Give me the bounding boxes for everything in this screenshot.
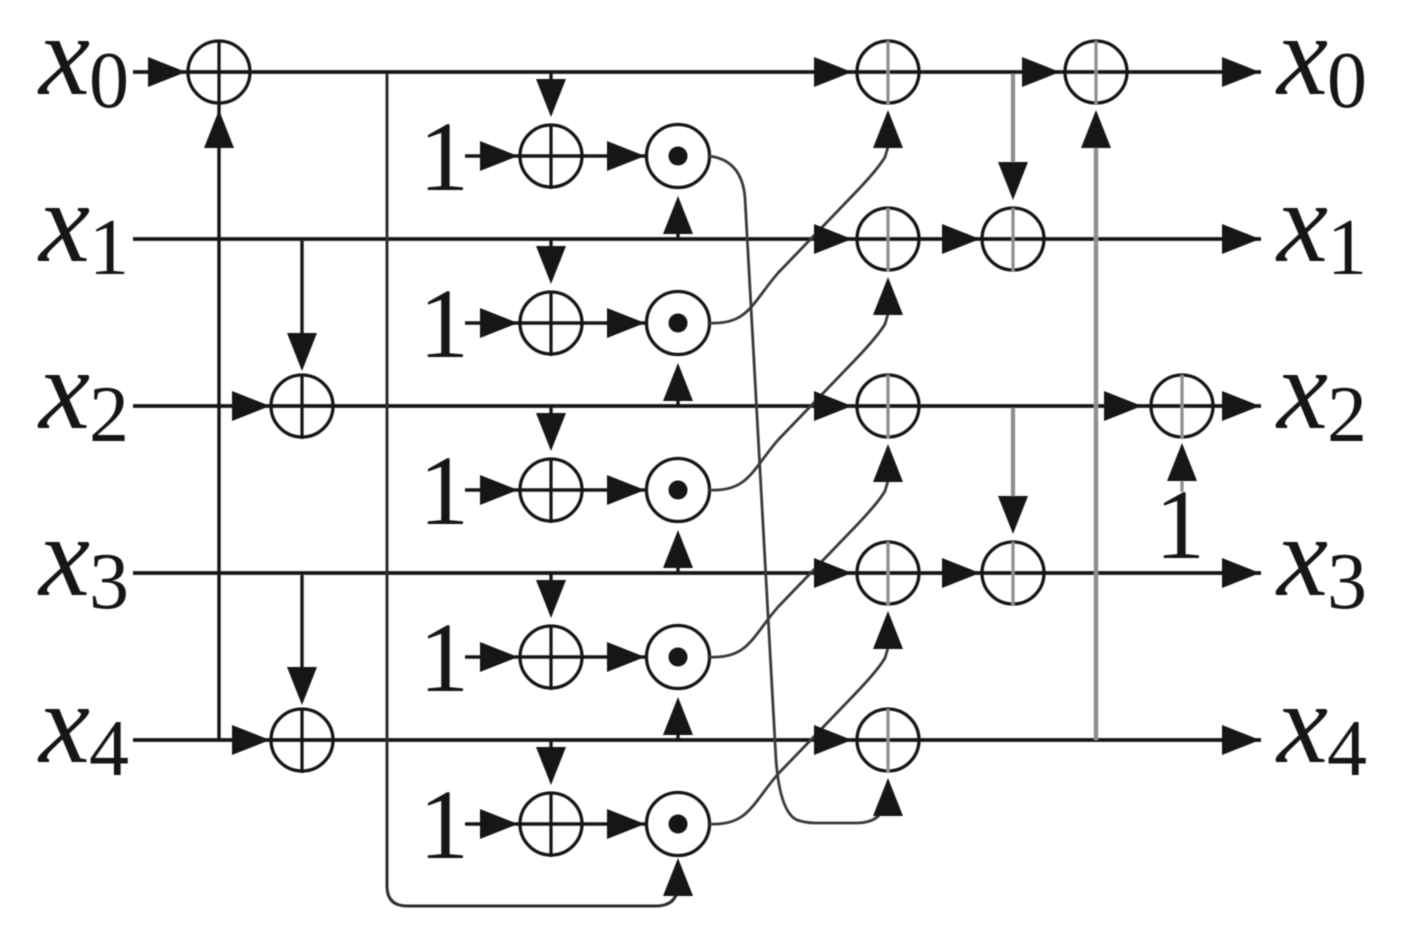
arrow 1 into U4 — [480, 141, 518, 171]
wire 1 to M1 (through U4) — [465, 154, 645, 157]
arrow 1 into U8 — [480, 809, 518, 839]
arrow into M1 — [607, 141, 645, 171]
arrow into U11 bottom — [873, 444, 903, 482]
xor gate U9 — [857, 41, 919, 105]
constant label 1 (sub-row 1) — [419, 101, 469, 212]
xor gate U13 — [857, 709, 919, 773]
arrow into U6 top — [536, 413, 566, 451]
xor gate U2 (x2 + x1) — [271, 375, 333, 439]
arrow 1 into U6 — [480, 475, 518, 505]
svg-text:0: 0 — [89, 37, 129, 125]
wire x1 down to U2 (x=302) — [300, 241, 303, 334]
input label x1 — [37, 159, 129, 292]
wire M4 output up to U11 (s-curve) — [709, 481, 888, 657]
wire x3 up into M3 (x=678) — [676, 560, 679, 573]
arrow input x0 into U1 — [148, 57, 186, 87]
xor gate U10 — [857, 208, 919, 272]
arrow output x0 — [1222, 57, 1260, 87]
and gate M3 (not x2 and x3) — [647, 459, 710, 522]
arrow 1 into U7 — [480, 642, 518, 672]
svg-text:x: x — [1275, 0, 1328, 119]
svg-text:x: x — [1275, 660, 1328, 787]
output label x1 — [1275, 159, 1367, 292]
xor gate U17 (x2 + 1) — [1151, 375, 1213, 439]
arrow into M3 — [607, 475, 645, 505]
wire x0 tap down around bottom to M5 (x=387) — [387, 74, 678, 906]
wire x0 down into U4 (x=551) — [549, 72, 552, 84]
wire M5 output up to U12 (s-curve) — [709, 648, 888, 824]
constant label 1 (sub-row 2) — [419, 268, 469, 379]
arrow into M4 — [607, 642, 645, 672]
svg-text:x: x — [37, 493, 90, 620]
arrow into U16 left — [1022, 57, 1060, 87]
wire M2 output up to U9 (s-curve) — [709, 147, 888, 323]
svg-text:1: 1 — [1327, 204, 1367, 292]
xor gate U16 (x0 + x4) — [1065, 41, 1127, 105]
arrow into U4 top — [536, 79, 566, 117]
svg-text:3: 3 — [1327, 538, 1367, 626]
xor gate U8 (1 + x4) — [520, 793, 582, 857]
wire x4 up into M4 (x=678) — [676, 727, 679, 740]
svg-text:2: 2 — [89, 371, 129, 459]
wire 1 up to U17 — [1180, 481, 1183, 492]
arrow into U9 bottom — [873, 110, 903, 148]
output label x3 — [1275, 493, 1367, 626]
constant label 1 (below U17) — [1155, 469, 1205, 580]
arrow into M2 bottom — [663, 363, 693, 401]
arrow into M4 bottom — [663, 697, 693, 735]
arrow into U17 left — [1104, 391, 1142, 421]
xor gate U6 (1 + x2) — [520, 459, 582, 523]
output label x4 — [1275, 660, 1367, 793]
xor gate U7 (1 + x3) — [520, 626, 582, 690]
xor gate U1 (x0 + x4) — [188, 41, 250, 105]
wire 1 to M3 (through U6) — [465, 488, 645, 491]
arrow into U11 left — [814, 391, 852, 421]
svg-text:1: 1 — [419, 101, 469, 212]
svg-text:x: x — [1275, 493, 1328, 620]
arrow into U8 top — [536, 747, 566, 785]
wire row x0 horizontal — [133, 70, 1261, 74]
output label x0 — [1275, 0, 1367, 125]
arrow into U2 top — [287, 333, 317, 371]
xor gate U5 (1 + x1) — [520, 292, 582, 356]
wire x1 down into U5 (x=551) — [549, 239, 552, 251]
output label x2 — [1275, 326, 1367, 459]
arrow into U14 left — [942, 224, 980, 254]
svg-text:1: 1 — [89, 204, 129, 292]
xor gate U15 (x3 + x2) — [982, 542, 1044, 606]
wire x4 down into U8 (x=551) — [549, 740, 552, 752]
wire x2 up into M2 (x=678) — [676, 393, 679, 406]
arrow into M5 — [607, 809, 645, 839]
wire x0 down to U14 (x=1013) — [1011, 74, 1015, 162]
wire 1 to M2 (through U5) — [465, 321, 645, 324]
arrow into U10 left — [814, 224, 852, 254]
arrow output x3 — [1222, 558, 1260, 588]
and gate M4 (not x3 and x4) — [647, 626, 710, 689]
arrow into U12 left — [814, 558, 852, 588]
arrow into U13 bottom — [873, 778, 903, 816]
svg-text:x: x — [37, 660, 90, 787]
wire x3 down into U7 (x=551) — [549, 573, 552, 585]
svg-text:x: x — [37, 0, 90, 119]
svg-text:2: 2 — [1327, 371, 1367, 459]
wire x2 down to U15 (x=1013) — [1011, 408, 1015, 496]
wire 1 to M5 (through U8) — [465, 822, 645, 825]
arrow input x4 into U3 — [232, 725, 270, 755]
arrow into U10 bottom — [873, 277, 903, 315]
svg-text:x: x — [37, 159, 90, 286]
arrow into U12 bottom — [873, 611, 903, 649]
arrow into U17 bottom — [1167, 443, 1197, 481]
wire row x4 horizontal — [133, 738, 1261, 742]
and gate M2 (not x1 and x2) — [647, 292, 710, 355]
xor gate U11 — [857, 375, 919, 439]
input label x3 — [37, 493, 129, 626]
arrow output x2 — [1222, 391, 1260, 421]
svg-text:1: 1 — [1155, 469, 1205, 580]
svg-text:x: x — [1275, 159, 1328, 286]
wire x4 up to U16 (x=1096) — [1094, 147, 1098, 740]
svg-text:4: 4 — [89, 705, 129, 793]
wire x3 down to U3 (x=302) — [300, 575, 303, 668]
arrow into U13 left — [814, 725, 852, 755]
wire x4 feedback up to U1 (x=219) — [217, 103, 220, 740]
constant label 1 (sub-row 4) — [419, 602, 469, 713]
xor gate U4 (1 + x0) — [520, 125, 582, 189]
arrow into U15 left — [942, 558, 980, 588]
arrow output x1 — [1222, 224, 1260, 254]
and gate M5 (not x4 and x0) — [647, 793, 710, 856]
svg-text:4: 4 — [1327, 705, 1367, 793]
wire 1 to M4 (through U7) — [465, 655, 645, 658]
svg-text:x: x — [37, 326, 90, 453]
arrow into U14 top — [998, 162, 1028, 200]
constant label 1 (sub-row 3) — [419, 435, 469, 546]
svg-text:0: 0 — [1327, 37, 1367, 125]
xor gate U12 — [857, 542, 919, 606]
xor gate U3 (x4 + x3) — [271, 709, 333, 773]
and gate M1 (not x0 and x1) — [647, 125, 710, 188]
arrow into M3 bottom — [663, 530, 693, 568]
wire row x2 horizontal — [133, 404, 1261, 408]
arrow 1 into U5 — [480, 308, 518, 338]
arrow into M5 bottom — [663, 858, 693, 896]
wire M1 output down around to U13 (curve) — [709, 156, 886, 823]
svg-text:1: 1 — [419, 435, 469, 546]
input label x0 — [37, 0, 129, 125]
arrow into U15 top — [998, 496, 1028, 534]
wire x1 up into M1 (x=678) — [676, 226, 679, 239]
wire row x1 horizontal — [133, 237, 1261, 241]
svg-text:1: 1 — [419, 268, 469, 379]
arrow into U9 left — [814, 57, 852, 87]
arrow into U3 top — [287, 667, 317, 705]
arrow into U1 bottom — [204, 110, 234, 148]
wire x2 down into U6 (x=551) — [549, 406, 552, 418]
svg-text:3: 3 — [89, 538, 129, 626]
input label x4 — [37, 660, 129, 793]
constant label 1 (sub-row 5) — [419, 769, 469, 880]
wire M3 output up to U10 (s-curve) — [709, 314, 888, 490]
arrow output x4 — [1222, 725, 1260, 755]
arrow into M1 bottom — [663, 196, 693, 234]
input label x2 — [37, 326, 129, 459]
arrow input x2 into U2 — [232, 391, 270, 421]
svg-text:1: 1 — [419, 769, 469, 880]
arrow into U7 top — [536, 580, 566, 618]
wire row x3 horizontal — [133, 571, 1261, 575]
svg-text:1: 1 — [419, 602, 469, 713]
xor gate U14 (x1 + x0) — [982, 208, 1044, 272]
svg-text:x: x — [1275, 326, 1328, 453]
arrow into M2 — [607, 308, 645, 338]
arrow into U5 top — [536, 246, 566, 284]
arrow into U16 bottom — [1081, 110, 1111, 148]
